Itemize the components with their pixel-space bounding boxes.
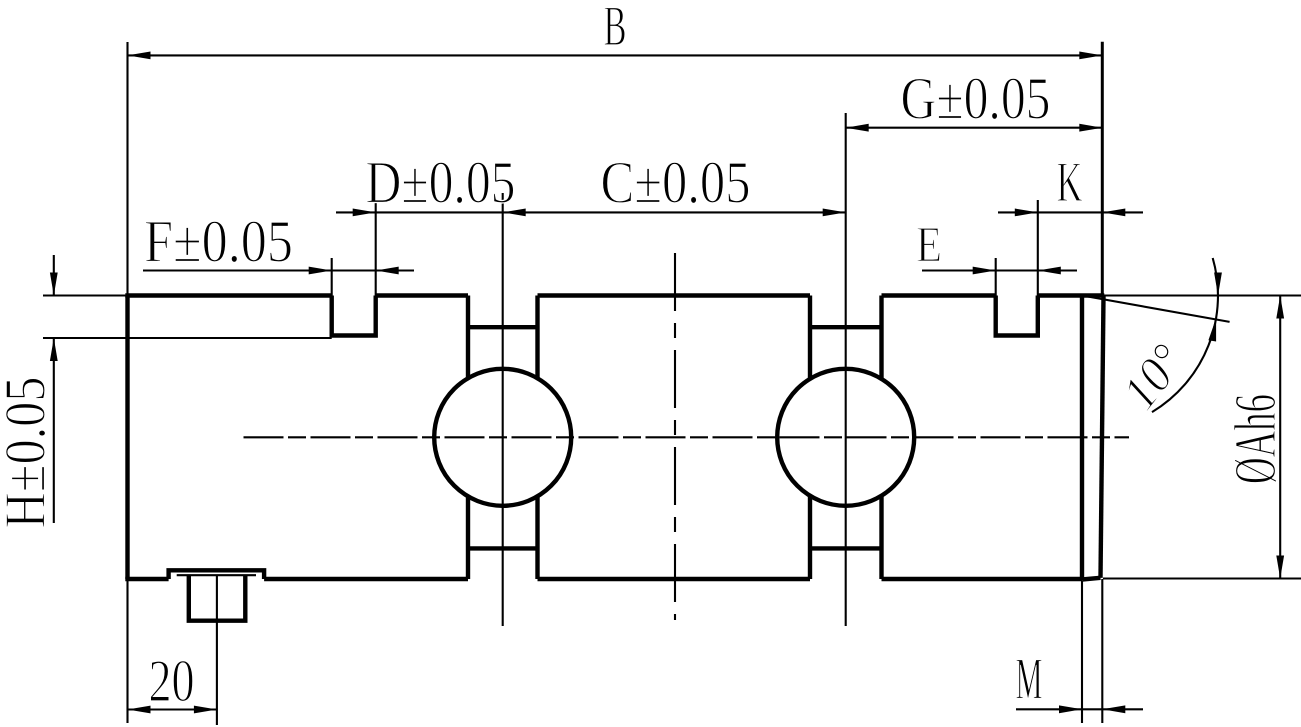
slot E notch <box>996 296 1038 336</box>
20 arrow right <box>194 706 217 714</box>
body left edge <box>125 296 129 580</box>
body top edge segment 3 <box>538 293 811 297</box>
10deg dimension arc <box>1152 258 1218 412</box>
M left extension line <box>1081 581 1083 723</box>
10deg reference slant line <box>1082 296 1230 322</box>
M arrow left outside <box>1059 705 1082 713</box>
body top edge segment 4 <box>882 293 996 297</box>
F arrow left outside <box>309 267 332 275</box>
cable boss plateau <box>169 570 265 579</box>
B arrow right <box>1079 52 1102 60</box>
G arrow left <box>846 124 869 132</box>
svg-text:G±0.05: G±0.05 <box>901 66 1051 132</box>
body right edge <box>1080 296 1084 581</box>
H arrow down outside <box>50 273 58 296</box>
B left extension line <box>126 42 128 296</box>
E left extension line <box>995 258 997 296</box>
shared D-C arrow <box>503 209 526 217</box>
svg-text:B: B <box>604 0 627 58</box>
diameter arrow up <box>1276 296 1284 319</box>
C arrow right <box>823 209 846 217</box>
E arrow left outside <box>973 267 996 275</box>
G dimension line <box>846 127 1103 129</box>
diameter arrow down <box>1276 556 1284 579</box>
20 dimension line <box>128 708 217 710</box>
10deg arc arrow upper <box>1214 273 1222 296</box>
svg-text:K: K <box>1057 151 1083 214</box>
body top edge segment 5 <box>1038 293 1105 297</box>
flexure hole 1 <box>434 369 571 506</box>
body bottom edge segment 2 <box>264 577 468 581</box>
cut2 bottom right wall <box>879 496 883 579</box>
middle vertical centerline <box>674 253 676 620</box>
cut2 bottom shelf <box>810 546 882 550</box>
diameter bottom extension line <box>1103 577 1301 579</box>
body bottom edge segment 1 <box>125 577 168 581</box>
svg-text:C±0.05: C±0.05 <box>601 150 751 216</box>
D extension line <box>375 202 377 296</box>
20 arrow left <box>128 706 151 714</box>
H dimension line lower <box>53 338 55 523</box>
D-C dimension line <box>336 211 846 213</box>
B arrow left <box>128 52 151 60</box>
cut1 top left wall <box>466 296 470 379</box>
cut2 top shelf <box>810 325 882 329</box>
G arrow right <box>1079 124 1102 132</box>
svg-text:F±0.05: F±0.05 <box>144 209 293 275</box>
H bottom extension line <box>43 337 332 339</box>
B dimension line <box>128 54 1103 56</box>
right extension line <box>1101 42 1104 296</box>
body top edge segment 2 <box>376 293 468 297</box>
svg-text:ØAh6: ØAh6 <box>1222 394 1288 484</box>
E dimension line <box>922 269 1077 271</box>
cable gland seat line <box>177 574 256 576</box>
H top extension line <box>43 294 128 296</box>
E right extension line <box>1037 200 1039 296</box>
H arrow up outside <box>50 338 58 361</box>
cut1 top shelf <box>468 325 538 329</box>
svg-text:M: M <box>1016 646 1043 712</box>
svg-text:20: 20 <box>149 648 195 714</box>
F arrow right outside <box>376 267 399 275</box>
cut2 top right wall <box>879 296 883 379</box>
svg-text:H±0.05: H±0.05 <box>0 377 58 529</box>
hole 1 vertical centerline <box>502 193 504 626</box>
20 left extension line <box>126 580 128 723</box>
diameter dimension line <box>1279 296 1281 579</box>
body bottom edge segment 3 <box>538 577 811 581</box>
F dimension line <box>143 269 414 271</box>
10deg arc arrow lower <box>1208 318 1216 341</box>
horizontal centerline <box>244 436 1130 438</box>
flexure hole 2 <box>777 369 914 506</box>
M right extension line <box>1101 579 1103 723</box>
K dimension line <box>998 211 1143 213</box>
end cap bottom edge <box>1082 578 1101 580</box>
cut2 bottom left wall <box>808 496 812 579</box>
body bottom edge segment 4 <box>882 577 1083 581</box>
H dimension line upper <box>53 255 55 296</box>
cut1 bottom left wall <box>466 496 470 579</box>
cut1 bottom shelf <box>468 546 538 550</box>
slot F notch <box>332 296 376 336</box>
M arrow right outside <box>1102 705 1125 713</box>
svg-text:E: E <box>916 218 942 274</box>
body top edge segment 1 <box>125 293 331 297</box>
cable gland tab <box>189 575 246 621</box>
cut1 top right wall <box>535 296 539 379</box>
E arrow right outside <box>1038 267 1061 275</box>
K arrow right outside <box>1102 209 1125 217</box>
cut2 top left wall <box>808 296 812 379</box>
M dimension line <box>1016 708 1143 710</box>
F left extension line <box>331 258 333 296</box>
D arrow left outside <box>353 209 376 217</box>
cut1 bottom right wall <box>535 496 539 579</box>
hole 2 vertical centerline <box>845 113 847 626</box>
end face edge <box>1101 296 1104 578</box>
K arrow left outside <box>1015 209 1038 217</box>
diameter top extension line <box>1104 294 1301 296</box>
svg-text:D±0.05: D±0.05 <box>366 150 516 216</box>
tab centerline <box>216 575 218 725</box>
